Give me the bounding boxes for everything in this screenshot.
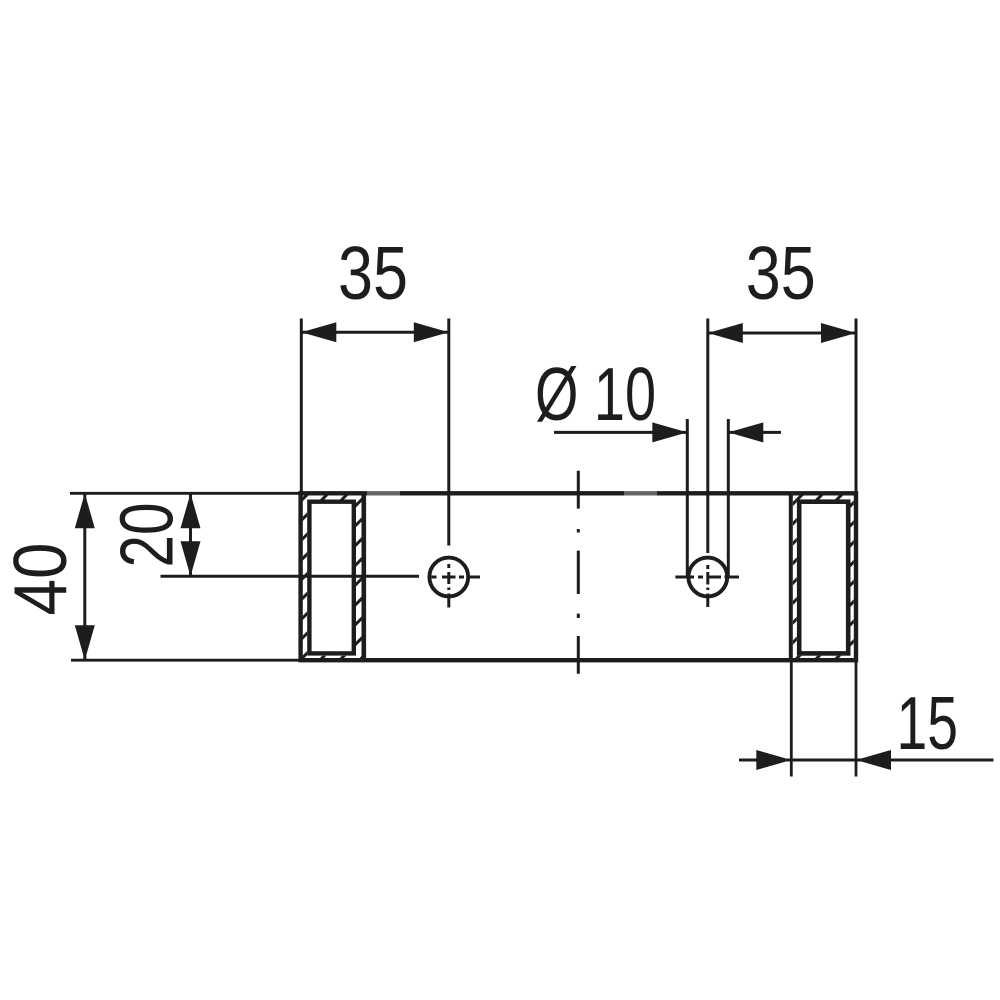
dim D10: extension lines — [687, 419, 728, 577]
dim 15: extension lines — [791, 662, 856, 777]
hole 1 centermark vertical — [447, 564, 450, 608]
hole 2 — [688, 558, 727, 597]
left tube outer face line — [361, 494, 366, 661]
dim 40: arrowheads — [75, 493, 95, 528]
dim 35 left: extension lines — [301, 319, 449, 546]
dim 20: arrowheads — [181, 493, 201, 528]
vertical centerline of plate — [577, 471, 580, 674]
dim D10: arrowheads — [652, 422, 687, 442]
dim 35 left: dimension line — [301, 331, 449, 334]
dim 20: extension line — [161, 575, 420, 578]
dim 20: dimension line — [189, 493, 192, 576]
dim 15: dimension line — [739, 759, 994, 762]
dim 35 right: arrowheads — [708, 323, 743, 343]
dim 35 left: arrowheads — [301, 322, 336, 342]
svg-text:40: 40 — [0, 543, 82, 616]
dim 35 right: dimension line — [708, 332, 856, 335]
svg-text:35: 35 — [338, 231, 408, 315]
svg-text:Ø 10: Ø 10 — [535, 352, 656, 436]
svg-text:15: 15 — [897, 681, 959, 765]
left tube inner wall — [309, 502, 353, 654]
dim D10: dimension lines — [554, 431, 781, 434]
right tube outer face line — [789, 494, 793, 661]
svg-text:35: 35 — [746, 231, 816, 315]
hole 2 centermark vertical — [706, 565, 709, 607]
hole 1 — [429, 558, 468, 597]
dim 40: extension lines — [70, 493, 302, 660]
hole 1 centermark horizontal — [432, 576, 481, 579]
dim 35 right: extension lines — [708, 319, 856, 554]
svg-text:20: 20 — [105, 503, 189, 568]
faint watermark patch 1 — [367, 491, 400, 497]
hole 2 centermark horizontal — [675, 576, 739, 579]
left tube wall hatching — [303, 495, 362, 658]
faint watermark patch 2 — [624, 491, 657, 497]
right tube wall hatching — [793, 495, 854, 658]
dim 40: dimension line — [83, 493, 86, 660]
dim 15: arrowheads — [756, 750, 791, 770]
plate outline — [301, 493, 856, 660]
right tube inner wall — [799, 502, 848, 654]
